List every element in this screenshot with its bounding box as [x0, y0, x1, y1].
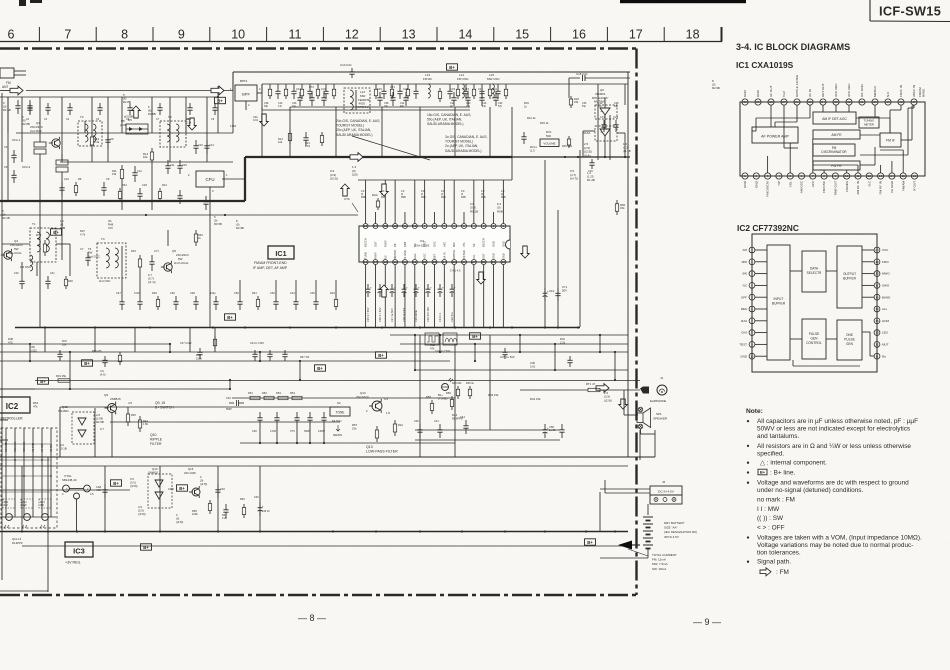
svg-text:R23 2.2k: R23 2.2k: [22, 441, 26, 452]
bus 201 junction dots: [145, 200, 147, 202]
svg-text:3-4. IC BLOCK DIAGRAMS: 3-4. IC BLOCK DIAGRAMS: [736, 42, 850, 52]
svg-text:RT1 47: RT1 47: [586, 382, 596, 386]
svg-text:57p: 57p: [498, 105, 503, 108]
svg-text:B+ SWITCH: B+ SWITCH: [155, 405, 174, 409]
svg-text:FM IF: FM IF: [383, 240, 387, 247]
svg-text:specified.: specified.: [757, 450, 784, 457]
svg-text:1761: 1761: [230, 124, 237, 128]
misc mid resistors: [289, 130, 291, 134]
svg-text:23: 23: [834, 100, 838, 104]
B+ near battery: [585, 539, 596, 545]
svg-text:MW OSC: MW OSC: [487, 77, 500, 81]
svg-text:11: 11: [875, 354, 878, 358]
svg-text:ICF-SW15: ICF-SW15: [879, 4, 941, 19]
svg-text:B+: B+: [587, 540, 593, 545]
svg-text:AFC AGC: AFC AGC: [847, 83, 851, 97]
battery B1: [647, 504, 649, 515]
band switch dots: [5, 443, 7, 445]
svg-text:— 9 —: — 9 —: [693, 617, 721, 627]
svg-text:R45 5.6k: R45 5.6k: [562, 145, 573, 148]
svg-text:BUFFER: BUFFER: [843, 277, 856, 281]
wire inner top bus: [262, 83, 628, 85]
svg-text:26: 26: [462, 260, 466, 264]
svg-text:10k: 10k: [143, 155, 148, 159]
svg-text:R51: R51: [248, 391, 253, 395]
svg-text:24o G/S, CANADIAN, E. AUS,: 24o G/S, CANADIAN, E. AUS,: [336, 119, 380, 123]
svg-text:10k: 10k: [62, 342, 67, 346]
svg-text:ANTENNA: ANTENNA: [356, 105, 369, 109]
svg-text:R2.8B: R2.8B: [22, 122, 30, 126]
svg-text:18o G/S, CANADIAN, E. AUS,: 18o G/S, CANADIAN, E. AUS,: [427, 113, 471, 117]
svg-text:B+: B+: [84, 361, 90, 366]
wire row 215: [0, 214, 358, 216]
svg-text:CK0: CK0: [741, 331, 747, 335]
svg-text:RFB: RFB: [403, 242, 407, 247]
svg-text:2SC1345: 2SC1345: [184, 471, 196, 475]
svg-text:18: 18: [686, 28, 700, 42]
svg-text:T4: T4: [101, 237, 105, 241]
svg-text:20o (AEP, UK, ITALIAN,: 20o (AEP, UK, ITALIAN,: [336, 128, 371, 132]
svg-text:28: 28: [769, 100, 773, 104]
svg-text:HOM: HOM: [882, 319, 890, 323]
inter-bus caps: [59, 350, 61, 354]
svg-text:R0.5B: R0.5B: [214, 222, 222, 226]
svg-text:All capacitors are in µF unles: All capacitors are in µF unless otherwis…: [757, 418, 918, 425]
resistor R46: [214, 336, 216, 339]
wire q9 area: [59, 407, 61, 457]
svg-text:METER: METER: [864, 122, 874, 126]
svg-text:IFK: IFK: [40, 504, 44, 507]
band switch contact rows: [2, 443, 50, 445]
svg-text:+3V REG.: +3V REG.: [65, 561, 81, 565]
wire CFU row: [222, 178, 245, 180]
svg-text:22: 22: [423, 260, 427, 264]
svg-text:Vcc: Vcc: [472, 254, 476, 259]
node junction: [217, 96, 219, 98]
svg-text:1.1: 1.1: [60, 219, 64, 223]
svg-text:1u 50: 1u 50: [549, 428, 556, 432]
svg-text:50o (AEP, UK, ITALIAN,: 50o (AEP, UK, ITALIAN,: [427, 118, 462, 122]
resistor R45 vol: [568, 136, 570, 139]
wire right edge box A: [627, 72, 629, 457]
svg-text:B+: B+: [472, 334, 478, 339]
svg-text:Ra: Ra: [882, 354, 886, 358]
svg-text:C37 0.022: C37 0.022: [180, 342, 192, 345]
svg-text:15k: 15k: [620, 206, 625, 210]
svg-text:IC1 CXA1019S: IC1 CXA1019S: [736, 60, 794, 70]
svg-text:C32 47u: C32 47u: [450, 312, 454, 322]
svg-text:FM DISCRI: FM DISCRI: [766, 181, 770, 197]
IC2 ONE PULSE GEN block: [837, 320, 862, 360]
svg-text:4.7k: 4.7k: [80, 232, 86, 236]
wire row 344: [0, 343, 170, 345]
svg-text:BPF1: BPF1: [240, 79, 248, 83]
wire row 352: [0, 351, 628, 353]
svg-text:C75: C75: [290, 430, 295, 433]
svg-text:DET OUT: DET OUT: [821, 83, 825, 97]
IC2 PULSE GEN CONTROL block: [802, 319, 826, 359]
svg-text:FM: 12mA: FM: 12mA: [652, 558, 666, 562]
svg-text:B+: B+: [378, 353, 384, 358]
svg-text:R2.2B: R2.2B: [2, 216, 10, 220]
svg-text:B+: B+: [40, 379, 46, 384]
IC1 TUNING METER block: [859, 117, 879, 128]
svg-text:(0): (0): [200, 478, 203, 482]
svg-text:R42 15k: R42 15k: [530, 397, 541, 401]
IC1 AM FE block: [813, 130, 860, 139]
svg-text:DC IN 4.5V: DC IN 4.5V: [658, 489, 675, 493]
wire earphone feed: [415, 429, 560, 431]
svg-text:C10 0.01: C10 0.01: [340, 63, 352, 67]
svg-text:XN4601: XN4601: [148, 471, 159, 475]
svg-text:R66: R66: [240, 498, 245, 501]
tone ground wire: [240, 442, 455, 444]
svg-text:27: 27: [782, 100, 786, 104]
IC2 block diagram outline and pins: [752, 234, 877, 372]
resistor R44 45: [127, 410, 129, 414]
svg-text:CT3: CT3: [464, 87, 469, 91]
wire row 407: [60, 406, 340, 408]
svg-text:S1 SW: S1 SW: [49, 443, 53, 452]
left edge component: [13, 150, 15, 155]
svg-text:12: 12: [868, 174, 872, 178]
svg-text:CFU: CFU: [205, 177, 214, 182]
svg-text:((0.2)): ((0.2)): [330, 177, 338, 181]
svg-text:RMS OUT: RMS OUT: [834, 181, 838, 195]
left block lower verticals: [21, 133, 23, 162]
svg-text:VOL: VOL: [788, 181, 792, 187]
capacitor C46: [217, 484, 219, 490]
svg-text:R53: R53: [276, 391, 281, 395]
svg-text:B1SCH: B1SCH: [482, 238, 486, 247]
IC3 label box: [65, 542, 93, 557]
wire bus 466: [0, 465, 628, 467]
total current arrow: [618, 541, 632, 550]
svg-text:11: 11: [403, 224, 406, 228]
wire row 335: [390, 334, 628, 336]
arrow to earphone: [596, 384, 609, 393]
resistor R18: [570, 96, 572, 99]
q5 collector wires: [167, 230, 169, 246]
svg-text:((2.9)): ((2.9)): [604, 398, 612, 402]
LED D14 tune: [442, 384, 449, 391]
svg-text:11: 11: [856, 174, 859, 178]
svg-text:AM RF IN: AM RF IN: [856, 181, 860, 195]
svg-text:390P: 390P: [304, 430, 310, 433]
top box mid rail: [262, 109, 470, 111]
svg-text:15: 15: [515, 28, 529, 42]
capacitor CA8: [104, 484, 106, 490]
svg-text:IC1: IC1: [275, 249, 286, 258]
svg-text:41p: 41p: [482, 105, 487, 108]
mw osc caps: [603, 120, 605, 125]
svg-text:IC1: IC1: [420, 239, 425, 243]
svg-text:(TUNE): (TUNE): [438, 396, 448, 400]
resistor R17: [616, 200, 618, 204]
low-pass caps: [419, 424, 421, 430]
svg-text:AM IF IN: AM IF IN: [912, 85, 916, 97]
svg-text:15k: 15k: [352, 427, 357, 431]
bus link verticals: [44, 328, 46, 353]
svg-text:BPF: BPF: [242, 92, 250, 97]
svg-text:6: 6: [8, 28, 15, 42]
svg-text:R45 1k: R45 1k: [466, 382, 475, 385]
svg-text:GND: GND: [743, 180, 747, 188]
svg-text:20: 20: [875, 248, 879, 252]
earphone plug: [640, 387, 649, 394]
svg-text:C45: C45: [310, 291, 315, 295]
svg-text:AF POWER AMP: AF POWER AMP: [761, 135, 789, 139]
svg-text:IC3: IC3: [73, 547, 85, 556]
resistor R40: [195, 230, 197, 234]
svg-text:FM: FM: [743, 248, 748, 252]
svg-text:C5: C5: [4, 165, 8, 169]
svg-text:RIF GND: RIF GND: [860, 84, 864, 97]
svg-text:20: 20: [403, 260, 407, 264]
svg-text:DATA: DATA: [810, 267, 819, 271]
wire bus 457: [0, 456, 655, 458]
left block caps row: [29, 103, 31, 108]
svg-text:△ : internal component.: △ : internal component.: [760, 460, 827, 467]
svg-text:((3.8)): ((3.8)): [138, 512, 146, 516]
svg-text:FM OSC: FM OSC: [457, 77, 469, 81]
svg-text:GND: GND: [740, 354, 748, 358]
svg-text:28: 28: [482, 260, 486, 264]
svg-text:13: 13: [384, 224, 388, 228]
scan artifact top bar: [620, 0, 746, 3]
transistor Q5 2nd local: [164, 263, 172, 271]
svg-text:1st LOCAL: 1st LOCAL: [8, 251, 22, 255]
capacitor C71: [151, 255, 153, 262]
svg-text:C29 22/4u: C29 22/4u: [414, 309, 418, 322]
LED D12: [24, 514, 31, 521]
svg-text:AF OUT: AF OUT: [769, 86, 773, 97]
resistor R12: [151, 148, 153, 152]
svg-text:470: 470: [108, 226, 113, 230]
svg-text:C15: C15: [182, 163, 187, 167]
svg-text:SAUDI ARABIA MODEL): SAUDI ARABIA MODEL): [445, 149, 481, 153]
svg-text:C8: C8: [106, 177, 110, 181]
svg-text:C9: C9: [110, 137, 114, 141]
model variant callout line: [352, 136, 430, 160]
svg-text:9: 9: [178, 28, 185, 42]
svg-text:AGC: AGC: [423, 253, 427, 259]
wire vertical 598: [597, 84, 599, 160]
arrow down right: [521, 246, 529, 258]
transformer T3: [160, 121, 186, 147]
cap C58: [544, 424, 546, 430]
svg-text:30: 30: [743, 100, 747, 104]
svg-text:((4.7)): ((4.7)): [570, 177, 578, 181]
diode D5 pair: [126, 124, 148, 134]
svg-text:0.01: 0.01: [530, 364, 536, 368]
tone row caps: [259, 412, 261, 418]
svg-text:TEST: TEST: [739, 343, 747, 347]
chain border bottom: [0, 594, 636, 596]
svg-text:R0B: R0B: [401, 196, 406, 199]
svg-text:Signal path.: Signal path.: [757, 559, 791, 566]
filter CF2-1: [34, 142, 46, 147]
IC1 chip body and pins: [359, 226, 510, 262]
wire muting: [624, 84, 626, 105]
svg-text:C46: C46: [220, 487, 225, 491]
varicap cluster CV2: [299, 92, 301, 98]
svg-text:J2: J2: [662, 480, 666, 484]
svg-text:12: 12: [875, 343, 879, 347]
electrolytic cap row below IC1: [367, 284, 369, 289]
svg-text:13: 13: [879, 174, 883, 178]
wire vertical 545: [544, 160, 546, 327]
svg-text:1300P: 1300P: [318, 430, 325, 433]
svg-text:DRY BATTERY: DRY BATTERY: [664, 521, 685, 525]
svg-text:VCC: VCC: [882, 248, 889, 252]
signal path arrow FM in: [10, 86, 23, 95]
IC1 internal wiring: [770, 105, 772, 127]
wire xtal row: [0, 489, 130, 491]
svg-text:22: 22: [847, 100, 851, 104]
band switch dashed box: [1, 428, 57, 528]
tone row resistors: [250, 396, 260, 399]
svg-text:R22 2.2k: R22 2.2k: [13, 441, 17, 452]
svg-text:LED: LED: [882, 331, 889, 335]
svg-text:3PCS 4.5V: 3PCS 4.5V: [664, 535, 679, 539]
svg-text:CONTROL: CONTROL: [806, 341, 822, 345]
total current label: [628, 549, 648, 556]
svg-text:33p: 33p: [384, 105, 389, 108]
svg-text:R22: R22: [398, 423, 403, 427]
svg-text:R21 2.2k: R21 2.2k: [4, 441, 8, 452]
wire row 389: [0, 388, 230, 390]
svg-text:83p: 83p: [614, 105, 619, 108]
caps near T1: [21, 276, 23, 281]
svg-text:R2.5B: R2.5B: [3, 108, 11, 112]
svg-text:C18: C18: [142, 183, 147, 187]
svg-text:10k: 10k: [278, 140, 283, 144]
svg-text:19: 19: [875, 260, 879, 264]
capacitor CT1b: [87, 252, 89, 258]
svg-text:VOLUME: VOLUME: [543, 142, 555, 146]
wire vertical 48 bottom: [47, 457, 49, 592]
svg-text:C34 0.1 50V: C34 0.1 50V: [250, 342, 264, 345]
svg-text:((3.8)): ((3.8)): [130, 484, 138, 488]
svg-text:(IEC DESIGNATION R6): (IEC DESIGNATION R6): [664, 530, 697, 534]
svg-text:R0B: R0B: [381, 196, 386, 199]
svg-text:INPUT: INPUT: [774, 297, 784, 301]
svg-text:GND: GND: [501, 241, 505, 247]
svg-text:CF2: CF2: [549, 289, 555, 293]
svg-text:17: 17: [875, 284, 879, 288]
svg-text:R13: R13: [162, 183, 167, 187]
svg-text:2SC1623: 2SC1623: [356, 395, 369, 399]
svg-text:RIPPLE FILTER: RIPPLE FILTER: [795, 74, 799, 97]
svg-text:R0B: R0B: [361, 196, 366, 199]
main bus bottom: [0, 531, 628, 533]
svg-text:Q9, 15: Q9, 15: [155, 401, 165, 405]
svg-text:R24: R24: [330, 291, 335, 295]
left block verticals: [7, 97, 9, 133]
svg-text:B+: B+: [143, 545, 149, 550]
wire verticals mid: [239, 280, 241, 296]
svg-text:21: 21: [413, 260, 417, 264]
capacitor C1 cluster: [17, 100, 19, 106]
svg-text:C71: C71: [154, 249, 159, 253]
svg-text:BUFFER: BUFFER: [772, 302, 786, 306]
svg-text:MWO: MWO: [882, 272, 890, 276]
svg-text:< > : OFF: < > : OFF: [757, 525, 785, 532]
svg-text:SB1238-40: SB1238-40: [62, 478, 77, 482]
svg-text:: FM: : FM: [776, 569, 789, 576]
svg-text:R2.9B: R2.9B: [712, 86, 720, 90]
svg-text:SELECTR: SELECTR: [807, 271, 822, 275]
svg-text:IC2: IC2: [6, 402, 19, 411]
svg-text:METER: METER: [393, 250, 397, 259]
filter CF2-2: [56, 160, 68, 165]
svg-text:15: 15: [902, 174, 906, 178]
arrow up mid: [341, 184, 349, 196]
svg-text:18: 18: [875, 272, 879, 276]
connector CN1 left edge: [0, 68, 14, 78]
wire chip top feed drop: [511, 157, 513, 180]
wire chip top feed: [358, 179, 512, 181]
wire speaker feed: [628, 456, 655, 458]
svg-text:FM IF: FM IF: [373, 252, 377, 259]
transformer T4: [97, 243, 126, 278]
IC1 FM DISCRIMINATOR block: [813, 144, 855, 156]
arrow down earphone: [619, 399, 627, 409]
svg-text:Q10: Q10: [150, 433, 157, 437]
svg-text:93p: 93p: [264, 105, 269, 108]
wire row 440: [415, 439, 560, 441]
svg-text:FILTER: FILTER: [150, 442, 162, 446]
svg-text:GND: GND: [501, 253, 505, 259]
svg-text:R9: R9: [78, 177, 82, 181]
bold bus lower: [0, 200, 245, 202]
svg-text:10: 10: [413, 224, 417, 228]
svg-text:31p: 31p: [292, 105, 297, 108]
svg-text:R19 15k: R19 15k: [56, 374, 67, 378]
svg-text:SW: SW: [742, 272, 747, 276]
wire FM antenna input top: [0, 90, 12, 92]
svg-text:BAND: BAND: [882, 295, 891, 299]
svg-text:R54: R54: [290, 391, 295, 395]
svg-text:S1 MW: S1 MW: [40, 443, 44, 452]
svg-text:(4.5): (4.5): [100, 372, 106, 376]
svg-text:VTL: VTL: [462, 242, 466, 247]
svg-text:C41: C41: [50, 272, 55, 275]
chain border top: [0, 47, 636, 49]
wire row 422: [110, 421, 340, 423]
svg-text:TUNE: TUNE: [364, 252, 368, 259]
svg-text:B+: B+: [760, 470, 766, 475]
osc caps cluster: [453, 92, 455, 98]
svg-text:FMO: FMO: [882, 260, 889, 264]
svg-text:7: 7: [64, 28, 71, 42]
svg-text:12: 12: [393, 224, 397, 228]
svg-text:10: 10: [750, 354, 754, 358]
svg-text:ANT: ANT: [2, 85, 8, 89]
svg-text:((1.1)): ((1.1)): [148, 280, 156, 284]
svg-text:C48: C48: [190, 291, 195, 295]
transistor Q3: [52, 139, 60, 147]
svg-text:R27: R27: [80, 229, 85, 233]
svg-text:: B+ line.: : B+ line.: [770, 469, 795, 476]
svg-text:(1.5: (1.5: [530, 148, 535, 152]
svg-text:18: 18: [384, 260, 388, 264]
svg-text:C50: C50: [234, 291, 239, 295]
svg-text:2o (AEP, UK, ITALIAN,: 2o (AEP, UK, ITALIAN,: [445, 144, 478, 148]
svg-text:50WV or less are not indicated: 50WV or less are not indicated except fo…: [757, 426, 910, 433]
capacitor C42 left: [229, 402, 234, 404]
